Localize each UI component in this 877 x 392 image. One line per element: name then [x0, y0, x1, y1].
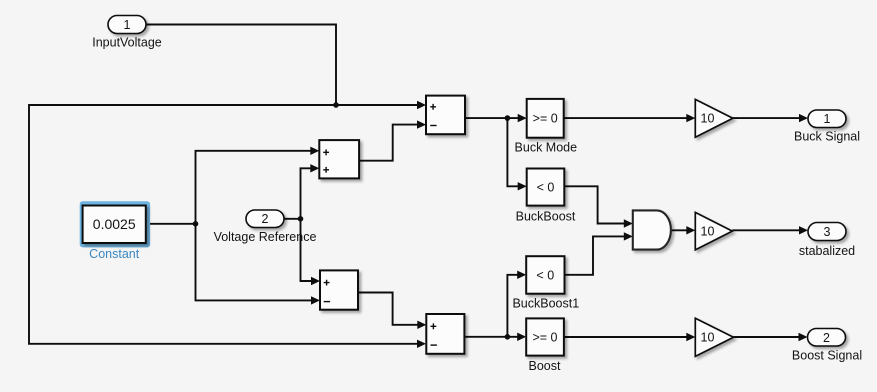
- outport 1 Buck Signal: [808, 110, 846, 128]
- sum block Sum2 (+ +): [319, 140, 359, 178]
- node junction InputVoltage: [333, 102, 339, 108]
- svg-text:< 0: < 0: [537, 180, 555, 194]
- sum block Sum4 (+ -): [426, 314, 464, 354]
- svg-text:1: 1: [824, 112, 831, 126]
- svg-text:BuckBoost1: BuckBoost1: [512, 297, 579, 311]
- wire main horizontal to Sum1 +: [29, 105, 418, 344]
- svg-text:>= 0: >= 0: [532, 331, 557, 345]
- arrowhead into Sum2 + top: [310, 147, 319, 155]
- wire Voltage Reference output: [284, 168, 312, 281]
- node junction Sum1 out: [505, 115, 511, 121]
- constant block C: [80, 201, 150, 247]
- gain Gain1 (10): [695, 99, 733, 137]
- svg-text:stabalized: stabalized: [799, 244, 855, 258]
- relational operator Buck Mode: [527, 99, 564, 138]
- relational operator Boost: [526, 318, 564, 355]
- svg-text:1: 1: [124, 18, 131, 32]
- arrowhead into BuckBoost: [518, 182, 527, 190]
- wire AND output to Gain2: [671, 229, 687, 231]
- wire Sum3 output to Sum4 +: [358, 293, 418, 325]
- arrowhead into Sum4 +: [417, 321, 426, 329]
- node junction Constant: [193, 221, 199, 227]
- node junction Sum4 out: [505, 334, 511, 340]
- gain Gain3 (10): [695, 318, 733, 356]
- arrowhead into Sum2 + bottom: [310, 164, 319, 172]
- wire Sum2 output to Sum1 -: [359, 125, 418, 161]
- outport 2 Boost Signal: [808, 329, 846, 347]
- wire Sum4 output: [464, 275, 518, 337]
- svg-text:Boost: Boost: [529, 359, 561, 373]
- relational operator BuckBoost1: [526, 256, 564, 294]
- svg-text:Boost Signal: Boost Signal: [792, 349, 862, 363]
- arrowhead into AND in2: [624, 232, 633, 240]
- svg-text:>= 0: >= 0: [533, 112, 558, 126]
- sum block Sum1 (+ -): [426, 96, 465, 135]
- svg-text:10: 10: [701, 112, 715, 126]
- wire Gain3 to out port Boost Signal: [734, 336, 800, 338]
- svg-text:2: 2: [823, 331, 830, 345]
- inport 1 InputVoltage: [108, 16, 146, 34]
- arrowhead into BuckMode: [518, 114, 527, 122]
- inport 2 Voltage Reference: [246, 210, 284, 228]
- arrowhead into Boost: [517, 333, 526, 341]
- wire BuckBoost output to AND input1: [564, 186, 625, 223]
- arrowhead into Sum1 -: [417, 120, 426, 128]
- svg-text:3: 3: [824, 225, 831, 239]
- relational operator BuckBoost: [527, 169, 565, 206]
- arrowhead into Gain3: [686, 333, 695, 341]
- wire BuckBoost1 output to AND input2: [565, 236, 626, 274]
- arrowhead into Sum1 +: [417, 101, 426, 109]
- svg-text:Buck Signal: Buck Signal: [794, 130, 860, 144]
- wire Constant output: [146, 151, 311, 301]
- arrowhead into Sum3 +: [311, 277, 320, 285]
- arrowhead into AND in1: [624, 219, 633, 227]
- svg-text:10: 10: [701, 331, 715, 345]
- arrowhead into Gain1: [686, 114, 695, 122]
- svg-text:Buck Mode: Buck Mode: [515, 141, 578, 155]
- sum block Sum3 (+ -): [320, 270, 358, 309]
- wire Boost output to Gain3: [564, 336, 687, 338]
- wire BuckMode output to Gain: [564, 117, 687, 119]
- node junction VoltageReference: [298, 216, 304, 222]
- arrowhead into Gain2: [686, 226, 695, 234]
- svg-text:10: 10: [701, 224, 715, 238]
- logical operator AND gate: [633, 210, 671, 249]
- svg-text:Voltage Reference: Voltage Reference: [214, 230, 317, 244]
- svg-text:BuckBoost: BuckBoost: [516, 210, 576, 224]
- wire from InputVoltage to junction: [146, 25, 336, 106]
- outport 3 stabalized: [808, 223, 846, 241]
- wire Gain1 to out port Buck Signal: [733, 117, 800, 119]
- wire Gain2 to out port stabalized: [732, 229, 800, 231]
- svg-text:0.0025: 0.0025: [93, 216, 136, 232]
- svg-text:< 0: < 0: [536, 269, 554, 283]
- gain Gain2 (10): [695, 212, 732, 250]
- svg-text:Constant: Constant: [89, 247, 140, 261]
- svg-text:InputVoltage: InputVoltage: [92, 36, 162, 50]
- wire Sum1 output: [465, 118, 519, 186]
- arrowhead into BuckBoost1: [517, 271, 526, 279]
- arrowhead into Sum3 -: [311, 296, 320, 304]
- arrowhead into Sum4 -: [417, 340, 426, 348]
- svg-text:2: 2: [262, 212, 269, 226]
